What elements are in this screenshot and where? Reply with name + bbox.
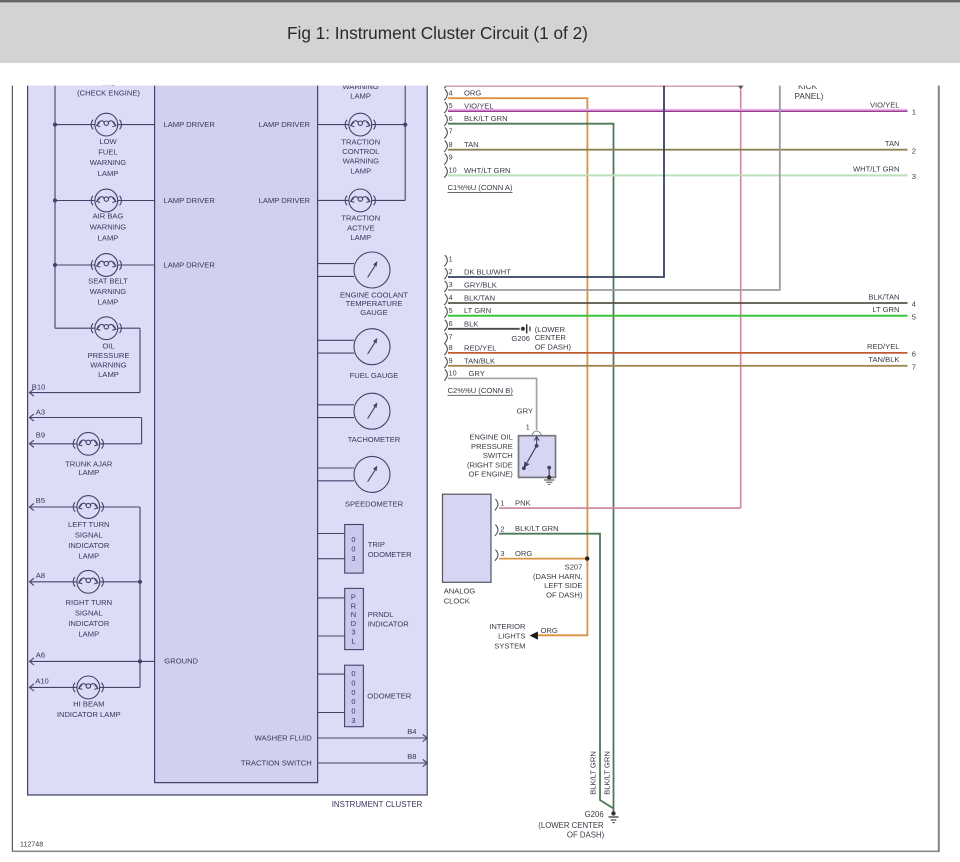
block ODOMETER [345,665,412,727]
wire speedometer pair [318,468,354,481]
label LAMP DRIVER left 1 [164,120,216,129]
svg-text:TRIP: TRIP [368,540,385,549]
svg-text:INDICATOR: INDICATOR [68,541,110,550]
pin A3 / wire [30,407,142,443]
svg-text:7: 7 [912,363,916,372]
top crop [0,0,960,86]
lamp RIGHT TURN SIGNAL INDICATOR LAMP [66,570,113,638]
svg-text:5: 5 [449,101,453,110]
svg-text:TAN/BLK: TAN/BLK [464,356,495,365]
svg-text:3: 3 [351,628,355,637]
junction dot seat belt [53,263,57,267]
svg-text:A6: A6 [36,651,45,660]
clock pin 2 [495,524,559,536]
svg-text:(RIGHT SIDE: (RIGHT SIDE [467,460,513,469]
svg-text:B10: B10 [32,383,46,392]
wire PNK kick panel [446,85,744,509]
connector C1 pin 5 [444,101,493,113]
svg-text:0: 0 [351,535,355,544]
wire BLK/TAN C2-4 [448,302,908,304]
svg-text:PRESSURE: PRESSURE [471,442,513,451]
svg-text:LAMP: LAMP [98,169,119,178]
svg-text:LEFT TURN: LEFT TURN [68,520,110,529]
svg-text:10: 10 [449,369,457,378]
svg-text:10: 10 [449,166,457,175]
gauge TACHOMETER [348,393,401,444]
pin A10 / wire [30,677,141,692]
wire bus left [55,80,95,328]
svg-text:0: 0 [351,545,355,554]
svg-text:INTERIOR: INTERIOR [489,622,526,631]
svg-text:WARNING: WARNING [90,158,127,167]
lamp TRUNK AJAR LAMP [65,432,113,477]
svg-text:TRACTION: TRACTION [341,138,380,147]
connector C2 pin 9 [444,356,495,368]
lamp LEFT TURN SIGNAL INDICATOR LAMP [68,496,110,561]
svg-text:G206: G206 [511,334,530,343]
block PRNDL INDICATOR [345,588,410,649]
svg-text:0: 0 [351,669,355,678]
connector C2 pin 7 [444,332,452,344]
label LT GRN right end / pin 5 [872,305,916,321]
svg-text:TRACTION: TRACTION [341,214,380,223]
svg-text:SIGNAL: SIGNAL [75,608,103,617]
arrow interior lights [530,632,538,640]
svg-text:ENGINE COOLANT: ENGINE COOLANT [340,290,408,299]
pin B8 traction switch wire [241,752,427,768]
label BLK/LT GRN rotated right [603,751,612,795]
svg-text:LT GRN: LT GRN [872,305,899,314]
wire TAN/BLK C2-9 [448,365,908,367]
svg-text:TACHOMETER: TACHOMETER [348,435,401,444]
lamp LOW FUEL WARNING LAMP [90,113,127,178]
svg-text:B4: B4 [407,727,416,736]
svg-text:WARNING: WARNING [90,223,127,232]
wire seat belt row [55,264,155,266]
svg-text:TEMPERATURE: TEMPERATURE [346,299,403,308]
svg-text:L: L [351,637,355,646]
block TRIP ODOMETER [345,525,412,574]
label INSTRUMENT CLUSTER [332,800,423,809]
svg-text:112748: 112748 [20,841,43,849]
switch ENGINE OIL PRESSURE SWITCH [519,436,556,480]
wire DK BLU/WHT C2-2 [448,80,664,277]
svg-text:ANALOG: ANALOG [444,587,476,596]
svg-text:R: R [351,601,356,610]
label LAMP DRIVER left 3 [164,261,216,270]
svg-text:INSTRUMENT CLUSTER: INSTRUMENT CLUSTER [332,800,423,809]
svg-text:9: 9 [449,153,453,162]
svg-text:B5: B5 [36,496,45,505]
svg-text:2: 2 [449,267,453,276]
svg-text:6: 6 [449,319,453,328]
svg-text:BLK/TAN: BLK/TAN [868,292,899,301]
svg-text:BLK/TAN: BLK/TAN [464,294,495,303]
pin B9 / wire [30,431,142,448]
connector C2 pin 5 [444,306,491,318]
svg-text:ODOMETER: ODOMETER [368,550,412,559]
svg-text:4: 4 [912,300,916,309]
label RED/YEL right end / pin 6 [867,342,916,358]
svg-text:6: 6 [449,114,453,123]
svg-text:3: 3 [351,554,355,563]
svg-text:BLK/LT GRN: BLK/LT GRN [515,524,559,533]
svg-text:1: 1 [912,108,916,117]
svg-text:SIGNAL: SIGNAL [75,531,103,540]
wire engine coolant temperature gauge pair [318,264,354,277]
svg-text:0: 0 [351,697,355,706]
svg-text:S207: S207 [565,562,583,571]
wire LT GRN C2-5 [448,315,908,317]
label TAN right end / pin 2 [885,139,916,155]
wire GRY/BLK C2-3 [448,80,780,290]
connector C2 pin 6 [444,319,478,331]
wire traction active row [318,199,406,201]
node GROUND label [164,657,198,666]
svg-text:Fig 1: Instrument Cluster Circ: Fig 1: Instrument Cluster Circuit (1 of … [287,23,588,43]
svg-text:CENTER: CENTER [535,333,567,342]
wire ORG C1-4 [448,98,587,635]
svg-text:LAMP: LAMP [98,370,119,379]
svg-text:LAMP DRIVER: LAMP DRIVER [259,196,311,205]
svg-text:LAMP: LAMP [98,233,119,242]
wire WHT/LT GRN C1-10 [448,174,908,176]
connector C2 pin 2 [444,267,511,279]
svg-text:2: 2 [912,146,916,155]
svg-text:LAMP DRIVER: LAMP DRIVER [259,120,311,129]
wire tachometer pair [318,405,354,418]
svg-text:CLOCK: CLOCK [444,597,470,606]
wire odometer pair [318,674,345,712]
doc number [20,841,43,849]
wire BLK C2-6 [448,328,520,330]
svg-text:OF DASH): OF DASH) [567,830,605,839]
pin B5 / wire [30,496,141,511]
svg-text:BLK/LT GRN: BLK/LT GRN [588,751,597,795]
svg-text:LAMP: LAMP [78,468,99,477]
svg-text:GRY: GRY [517,407,533,416]
lamp SEAT BELT WARNING LAMP [88,254,128,307]
svg-text:BLK/LT GRN: BLK/LT GRN [464,114,508,123]
svg-text:1: 1 [526,423,530,432]
label lower center of dash [535,325,572,352]
node MIL (cut off) [77,79,140,97]
splice S207 [585,556,589,560]
svg-text:7: 7 [449,127,453,136]
svg-text:(CHECK ENGINE): (CHECK ENGINE) [77,88,140,97]
label GRY [517,407,533,416]
svg-text:PNK: PNK [515,499,531,508]
pin B10 [30,383,46,397]
wire VIO/YEL C1-5 [448,110,908,111]
svg-text:PRESSURE: PRESSURE [88,351,130,360]
svg-text:(LOWER CENTER: (LOWER CENTER [538,821,604,830]
instrument cluster box [28,80,428,795]
svg-text:C2%%U (CONN B): C2%%U (CONN B) [448,386,514,395]
svg-text:LAMP: LAMP [350,166,371,175]
junction dot low fuel [53,123,57,127]
svg-text:TAN: TAN [464,140,479,149]
clock pin 1 [495,499,531,511]
lamp AIR BAG WARNING LAMP [90,189,127,242]
connector C1 pin 3 [444,77,447,88]
label VIO/YEL right end / pin 1 [870,100,916,116]
label engine oil pressure switch [467,433,513,479]
svg-text:PANEL): PANEL) [795,92,824,101]
svg-text:AIR BAG: AIR BAG [93,212,124,221]
wire TAN C1-8 [448,149,908,151]
label TAN/BLK right end / pin 7 [868,355,916,371]
svg-text:PRNDL: PRNDL [368,610,394,619]
svg-text:SPEEDOMETER: SPEEDOMETER [345,499,404,508]
wire turn signal vertical [139,507,141,687]
svg-text:4: 4 [449,293,453,302]
connector C1 pin 10 [444,166,510,178]
label G206 lower center of dash [538,810,604,839]
svg-text:5: 5 [449,306,453,315]
svg-text:LAMP DRIVER: LAMP DRIVER [164,120,216,129]
label WHT/LT GRN right end / pin 3 [853,165,916,181]
clock pin 3 [495,549,533,561]
wire prndl pair [318,598,345,636]
wire ORG clock [499,558,587,560]
connector C2 pin 3 [444,280,497,292]
svg-text:GAUGE: GAUGE [360,308,387,317]
lamp TRACTION CONTROL WARNING LAMP [341,113,380,175]
pin B4 washer fluid wire [255,727,428,743]
svg-text:FUEL GAUGE: FUEL GAUGE [350,371,399,380]
label LAMP DRIVER left 2 [164,196,216,205]
svg-text:CONTROL: CONTROL [342,147,379,156]
svg-text:P: P [351,593,356,602]
svg-text:GRY/BLK: GRY/BLK [464,281,497,290]
svg-text:A8: A8 [36,571,45,580]
component ANALOG CLOCK [443,494,492,606]
gauge SPEEDOMETER [345,456,404,508]
svg-text:ORG: ORG [541,626,558,635]
lamp (cut) warning lamp caption [342,82,379,101]
connector C1 pin 7 [444,127,452,139]
svg-text:HI BEAM: HI BEAM [73,699,104,708]
pin A8 / wire [30,571,143,586]
label BLK/LT GRN rotated left [588,751,597,795]
lamp TRACTION ACTIVE LAMP [341,189,380,242]
svg-text:TAN: TAN [885,139,900,148]
svg-text:C1%%U (CONN A): C1%%U (CONN A) [448,183,513,192]
svg-text:LOW: LOW [99,137,117,146]
svg-text:LEFT SIDE: LEFT SIDE [544,581,582,590]
svg-text:OIL: OIL [102,342,114,351]
svg-text:LAMP: LAMP [98,298,119,307]
svg-text:9: 9 [449,356,453,365]
connector C1 pin 9 [444,153,452,165]
svg-text:3: 3 [501,549,505,558]
header band [0,0,960,63]
svg-text:ENGINE OIL: ENGINE OIL [469,433,512,442]
connector C1 pin 6 [444,114,507,126]
svg-text:1: 1 [449,254,453,263]
svg-text:GRY: GRY [469,369,485,378]
svg-text:0: 0 [351,707,355,716]
title [287,23,588,43]
svg-text:OF ENGINE): OF ENGINE) [468,470,513,479]
connector C2 pin 1 [444,254,452,266]
svg-text:D: D [351,619,356,628]
svg-text:INDICATOR: INDICATOR [68,619,110,628]
wire BLK/LT GRN C1-6 [448,124,614,812]
wire traction vertical [404,80,406,200]
lamp OIL PRESSURE WARNING LAMP [88,317,130,379]
connector C2 pin 8 [444,343,496,355]
svg-text:ORG: ORG [464,89,481,98]
ground G206 bottom [609,811,619,822]
svg-text:4: 4 [449,88,453,97]
svg-text:7: 7 [449,332,453,341]
wire PNK clock [499,507,741,509]
wire air bag row [55,200,155,202]
svg-text:6: 6 [912,350,916,359]
label S207 [533,562,583,599]
svg-text:B8: B8 [407,752,416,761]
label BLK/TAN right end / pin 4 [868,292,916,308]
ground below switch [544,480,554,484]
svg-text:OF DASH): OF DASH) [546,591,583,600]
wire GRY C2-10 [448,378,537,430]
switch pin 1 [526,423,541,436]
wire RED/YEL C2-8 [448,352,908,354]
svg-text:ACTIVE: ACTIVE [347,223,374,232]
svg-text:WARNING: WARNING [90,361,127,370]
svg-text:A10: A10 [35,677,49,686]
wire traction control row [318,124,406,126]
svg-text:A3: A3 [36,407,45,416]
svg-text:0: 0 [351,688,355,697]
svg-text:ORG: ORG [515,549,532,558]
junction dot air bag [53,198,57,202]
wire BLK/LT GRN clock [499,534,614,809]
svg-text:SWITCH: SWITCH [483,451,513,460]
svg-text:GROUND: GROUND [164,657,198,666]
svg-text:3: 3 [351,716,355,725]
svg-text:WARNING: WARNING [90,287,127,296]
svg-text:WASHER FLUID: WASHER FLUID [255,734,313,743]
svg-text:WHT/LT GRN: WHT/LT GRN [853,165,900,174]
svg-text:INDICATOR: INDICATOR [368,620,410,629]
svg-text:5: 5 [912,312,916,321]
svg-text:RIGHT TURN: RIGHT TURN [66,598,113,607]
svg-text:TRACTION SWITCH: TRACTION SWITCH [241,759,312,768]
label INTERIOR LIGHTS SYSTEM [489,622,526,650]
svg-text:2: 2 [501,524,505,533]
gauge ENGINE COOLANT TEMPERATURE GAUGE [340,252,408,317]
svg-text:LAMP: LAMP [78,629,99,638]
lamp HI BEAM INDICATOR LAMP [57,676,121,719]
svg-text:LAMP DRIVER: LAMP DRIVER [164,196,216,205]
svg-text:DK BLU/WHT: DK BLU/WHT [464,268,511,277]
svg-text:SYSTEM: SYSTEM [494,641,525,650]
svg-text:8: 8 [449,140,453,149]
svg-text:LAMP: LAMP [350,92,371,101]
connector C2 pin 4 [444,293,495,305]
svg-text:BLK: BLK [464,319,478,328]
svg-text:TAN/BLK: TAN/BLK [868,355,899,364]
svg-text:0: 0 [351,678,355,687]
svg-text:LAMP: LAMP [350,233,371,242]
svg-text:RED/YEL: RED/YEL [464,343,497,352]
svg-text:BLK/LT GRN: BLK/LT GRN [603,751,612,795]
connector C1 pin 8 [444,140,478,152]
svg-text:8: 8 [449,343,453,352]
label LAMP DRIVER right 1 [259,120,311,129]
connector C1 pin 4 [444,88,481,100]
connector C1 name [448,183,513,192]
label LAMP DRIVER right 2 [259,196,311,205]
svg-text:3: 3 [449,280,453,289]
svg-text:B9: B9 [36,431,45,440]
svg-text:1: 1 [501,499,505,508]
svg-text:SEAT BELT: SEAT BELT [88,277,128,286]
svg-text:INDICATOR LAMP: INDICATOR LAMP [57,710,121,719]
pin A6 / ground wire [30,651,155,666]
cluster module box [155,80,318,783]
svg-text:3: 3 [912,172,916,181]
svg-text:OF DASH): OF DASH) [535,343,572,352]
svg-text:LT GRN: LT GRN [464,306,491,315]
wire low fuel row [55,124,155,126]
label KICK PANEL [795,82,824,101]
wire trip odometer pair [318,534,345,559]
svg-text:ODOMETER: ODOMETER [367,692,411,701]
svg-text:LIGHTS: LIGHTS [498,632,525,641]
connector C2 name [448,386,514,395]
ground splice G206 [511,324,530,343]
wire fuel gauge pair [318,340,354,353]
svg-text:WARNING: WARNING [343,157,380,166]
label ORG interior [541,626,558,635]
connector C2 pin 10 [444,369,485,381]
svg-text:(DASH HARN,: (DASH HARN, [533,572,582,581]
svg-text:N: N [351,610,356,619]
svg-text:G206: G206 [585,810,604,819]
svg-text:VIO/YEL: VIO/YEL [870,100,900,109]
svg-text:LAMP DRIVER: LAMP DRIVER [164,261,216,270]
svg-text:FUEL: FUEL [98,148,117,157]
svg-text:RED/YEL: RED/YEL [867,342,900,351]
wire oil pressure row [30,328,141,392]
svg-text:WHT/LT GRN: WHT/LT GRN [464,166,511,175]
gauge FUEL GAUGE [350,329,399,380]
svg-text:LAMP: LAMP [78,552,99,561]
junction dot traction [403,123,407,127]
